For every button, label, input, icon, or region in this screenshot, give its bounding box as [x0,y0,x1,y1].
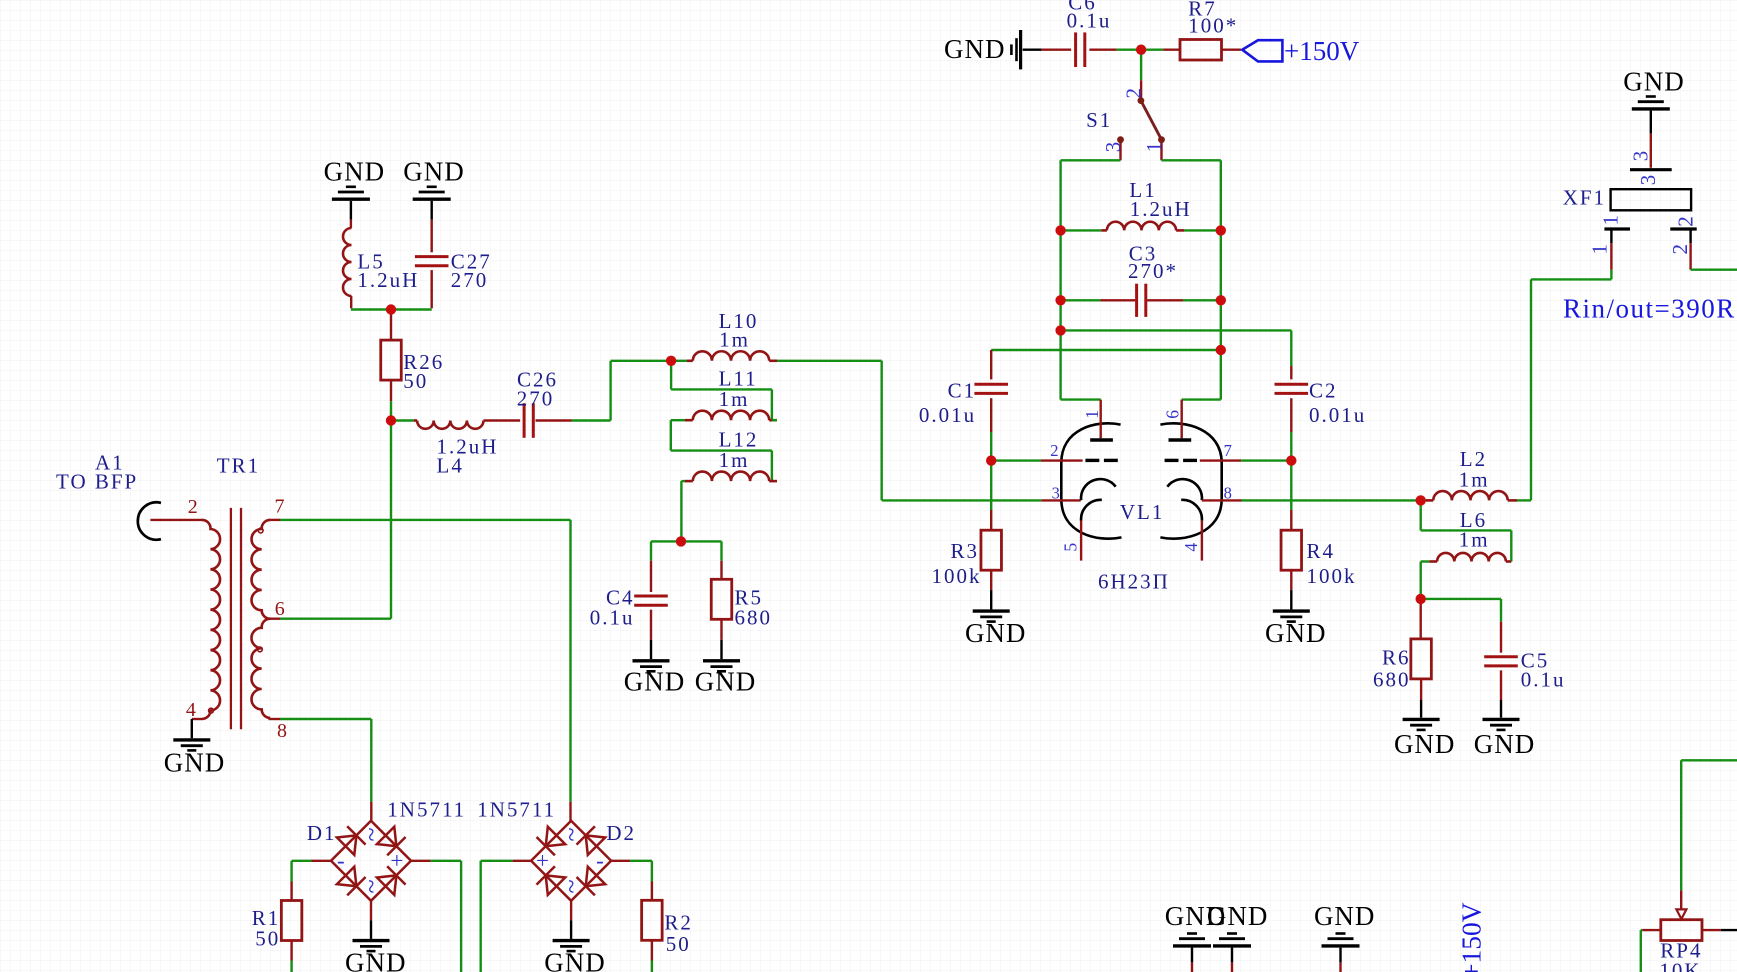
junction C4/R5 node [676,536,686,546]
ground below R5 [720,640,722,659]
TR1 core [230,508,232,729]
svg-text:1: 1 [1082,410,1102,419]
cathode a arc of VL1 [1081,479,1116,500]
TR1 polarity dot lower [258,647,263,652]
svg-text:2: 2 [188,496,198,518]
svg-text:D2: D2 [606,821,636,845]
wire L11 left down to L12 right [670,420,672,450]
pin 4 of VL1 (heater) [1201,521,1203,561]
svg-text:GND: GND [1265,618,1327,648]
svg-text:D1: D1 [307,821,337,845]
wire grid-b node down to R4 [1290,461,1292,510]
switch S1 [1140,80,1142,98]
svg-text:S1: S1 [1086,108,1112,132]
anode plate a of VL1 [1090,438,1113,442]
svg-text:-: - [337,848,345,873]
svg-text:VL1: VL1 [1120,500,1165,524]
svg-text:4: 4 [1181,543,1201,552]
svg-text:1: 1 [1142,142,1166,153]
junction L2 node [1416,495,1426,505]
wire node to C4 [651,540,681,542]
svg-text:1m: 1m [1459,528,1490,552]
resistor R3 [990,510,992,530]
svg-text:3: 3 [1628,151,1652,162]
junction L1 right [1216,225,1226,235]
svg-text:GND: GND [695,667,757,697]
XF1 pin 2 plate [1670,227,1696,230]
tube VL1 envelope [1061,423,1121,538]
svg-text:0.1u: 0.1u [590,605,635,629]
pin 2 of VL1 (grid a) [1041,459,1083,461]
svg-text:L4: L4 [437,454,464,478]
svg-text:270: 270 [517,387,555,411]
junction C1 / grid 2 / R3 [986,455,996,465]
heater a arc of VL1 [1081,500,1102,521]
inductor L11 [671,419,685,421]
junction R6/C5 node [1416,594,1426,604]
pin 7 of VL1 (grid b) [1200,459,1242,461]
cathode b arc of VL1 [1167,479,1202,500]
wire L2 right up to XF1 pin 1 [1530,279,1532,500]
svg-text:2: 2 [1668,244,1692,255]
pin 3 of VL1 (cathode a) [1041,499,1080,501]
junction R26 / L4 / TR1 pin6 wire [386,415,396,425]
svg-text:270*: 270* [1128,259,1178,283]
svg-text:100*: 100* [1188,14,1238,38]
resistor R26 [390,310,392,341]
svg-text:2: 2 [1050,441,1058,460]
wire L5 to C27 bottom rail [351,308,432,310]
resistor R6 [1419,599,1421,639]
anode plate b of VL1 [1169,438,1192,442]
svg-text:2: 2 [1674,216,1698,227]
wire grid-a node down to R3 [990,461,992,510]
svg-text:GND: GND [324,156,386,186]
junction tank-left / C2 wire [1055,325,1065,335]
wire L12 left down to C4/R5 node [680,481,682,541]
wire TR1 pin 7 to D2 bridge [280,519,571,521]
svg-text:-: - [596,848,604,873]
svg-text:GND: GND [544,947,606,972]
capacitor C4 [650,561,652,592]
svg-text:GND: GND [965,618,1027,648]
svg-text:1: 1 [1588,244,1612,255]
svg-text:680: 680 [1373,668,1411,692]
svg-text:GND: GND [1207,901,1269,931]
svg-text:GND: GND [624,667,686,697]
svg-text:8: 8 [277,720,287,742]
inductor L6 [1429,560,1437,563]
svg-text:R3: R3 [950,539,979,563]
wire tank to C2 (top bypass) [1061,329,1292,331]
svg-text:3: 3 [1052,484,1060,503]
capacitor C2 [1290,366,1292,379]
wire tank right to tube pin 6 [1182,398,1221,400]
svg-text:1m: 1m [1459,467,1490,491]
pin 3 of XF1 [1650,134,1652,168]
junction C3 right [1216,295,1226,305]
XF1 pin 1 plate [1604,227,1630,230]
grid a dashes of VL1 [1085,459,1099,462]
crystal filter XF1 body [1611,189,1692,210]
wire S1 pin3 rail to tank left [1061,159,1121,161]
wire XF1 pin 2 to right edge [1691,269,1737,271]
capacitor C5 [1500,622,1502,653]
ground below C5 [1500,700,1502,718]
wire right edge to RP4 wiper [1681,759,1737,761]
svg-text:R4: R4 [1307,539,1336,563]
capacitor C27 [431,220,433,253]
power flag +150V [1242,40,1282,61]
pin 8 of VL1 (cathode b) [1202,499,1242,501]
svg-text:+150V: +150V [1284,36,1360,66]
svg-text:R6: R6 [1382,646,1411,670]
svg-text:10K: 10K [1659,959,1701,972]
resistor R5 [720,561,722,580]
svg-text:+: + [390,848,403,873]
junction above R26 [386,304,396,314]
wire L10 node down to L11 right [670,361,672,390]
junction tank-right / C1 wire [1216,345,1226,355]
svg-text:0.01u: 0.01u [919,403,976,427]
wire C26 to L10 node [572,419,611,421]
diode bridge D1 [370,802,372,821]
wire TR1 pin 8 to D1 bridge [280,718,371,720]
ground at TR1 pin 4 [191,719,193,738]
svg-text:7: 7 [275,495,285,517]
svg-text:GND: GND [1394,729,1456,759]
svg-text:270: 270 [451,268,489,292]
svg-text:1m: 1m [719,328,750,352]
svg-text:50: 50 [403,369,428,393]
svg-text:100k: 100k [932,564,982,588]
svg-text:8: 8 [1224,484,1232,503]
wire L6 left down to R6/C5 node [1419,562,1421,599]
resistor R2 [651,882,653,901]
transformer TR1 primary winding [150,519,203,521]
ground below D2 [570,901,572,920]
svg-text:7: 7 [1224,441,1232,460]
pin 1 of VL1 (anode a) [1099,400,1101,439]
antenna connector arc [138,502,161,539]
potentiometer RP4 [1680,890,1682,909]
wire C6 to R7 [1117,49,1164,51]
svg-text:4: 4 [186,699,196,721]
junction C2 / grid 7 / R4 [1286,455,1296,465]
inductor L1 [1061,229,1102,231]
wire L2 node to L6 right [1419,500,1421,530]
wire L10 right down to cathode rail [777,360,882,362]
svg-text:0.01u: 0.01u [1309,403,1366,427]
resistor R1 [290,882,292,901]
svg-text:~: ~ [557,826,586,841]
svg-text:100k: 100k [1307,564,1357,588]
svg-text:GND: GND [164,748,226,778]
inductor L4 [391,419,414,421]
ground below R4 [1290,590,1292,609]
wire junction down to S1 pin 2 [1140,50,1142,81]
svg-text:50: 50 [666,932,691,956]
svg-text:1.2uH: 1.2uH [357,268,419,292]
transformer TR1 secondary winding upper [252,520,271,619]
S1 pin 3 contact dot [1117,136,1124,143]
TR1 polarity dot upper [258,528,263,533]
ground below R6 [1420,700,1422,718]
diode bridge D2 [569,802,571,821]
junction L1 left [1055,225,1065,235]
inductor L5 [350,220,352,228]
svg-text:1N5711: 1N5711 [477,798,556,822]
resistor R4 [1290,510,1292,530]
inductor L2 [1421,499,1426,501]
svg-text:TO BFP: TO BFP [56,470,138,494]
svg-text:680: 680 [735,605,773,629]
svg-text:+: + [536,848,549,873]
wire S1 pin1 rail to tank right [1162,159,1221,161]
svg-text:50: 50 [255,927,280,951]
pin 6 of VL1 (anode b) [1180,400,1182,439]
svg-text:3: 3 [1636,175,1660,186]
svg-text:6H23П: 6H23П [1098,570,1170,594]
svg-text:2: 2 [1121,88,1145,99]
TR1 polarity dot primary [209,708,214,713]
svg-text:GND: GND [345,947,407,972]
svg-text:~: ~ [357,878,386,893]
wire RP4 right lead to edge [1721,929,1737,931]
wire RP4 left lead down [1641,929,1643,931]
wire C1 to tank right [991,349,1221,351]
S1 pin 1 contact dot [1158,136,1165,143]
svg-text:TR1: TR1 [217,454,260,478]
inductor L12 [681,480,685,482]
svg-text:GND: GND [1623,67,1685,97]
inductor L10 [671,360,687,362]
svg-text:1m: 1m [719,387,750,411]
svg-text:GND: GND [403,156,465,186]
svg-text:GND: GND [944,34,1006,64]
ground below C4 [650,640,652,659]
XF1 pin 3 plate [1630,168,1672,171]
junction at +150V node [1136,45,1146,55]
wire tank left to tube pin 1 [1061,398,1101,400]
wire L10 leg to cathode pin 3 [882,499,1042,501]
wire C2 node to grid pin 7 [1241,459,1291,461]
svg-text:~: ~ [357,826,386,841]
svg-text:0.1u: 0.1u [1067,9,1112,33]
capacitor C26 [523,403,526,438]
svg-text:+150V: +150V [1456,902,1487,972]
svg-text:~: ~ [557,878,586,893]
wire cathode pin 8 to L2 node [1242,499,1421,501]
resistor R7 [1163,49,1180,51]
svg-text:1: 1 [1598,215,1622,226]
svg-text:R2: R2 [664,910,693,934]
svg-text:3: 3 [1101,142,1125,153]
svg-text:XF1: XF1 [1563,185,1606,209]
capacitor C3 [1061,299,1101,301]
grid b dashes of VL1 [1165,459,1179,462]
transformer TR1 secondary winding lower [252,619,271,718]
wire TR1 pin 6 to R26 node [280,618,391,620]
ground below D1 [370,901,372,920]
svg-text:1.2uH: 1.2uH [1130,197,1192,221]
svg-text:1N5711: 1N5711 [387,798,466,822]
junction C3 left [1055,295,1065,305]
wire D1 minus to R1 [312,860,332,862]
wire D1 plus output [411,860,431,862]
svg-text:C2: C2 [1309,378,1338,402]
capacitor C1 [990,350,992,379]
wire D2 minus to R2 [611,860,630,862]
pin 5 of VL1 (heater) [1080,520,1082,560]
svg-text:6: 6 [1163,410,1183,419]
wire D2 plus output [513,860,532,862]
heater b arc of VL1 [1181,500,1202,521]
pin 2 of XF1 [1689,231,1691,244]
wire node to R5 [681,540,722,542]
svg-text:5: 5 [1060,543,1080,552]
wire C1 node to grid pin 2 [991,459,1041,461]
pin 1 of XF1 [1610,231,1612,244]
junction L10 node [666,356,676,366]
ground below R3 [990,590,992,609]
svg-text:6: 6 [275,598,285,620]
svg-text:GND: GND [1474,729,1536,759]
capacitor C6 [1041,49,1071,51]
svg-text:GND: GND [1314,901,1376,931]
svg-text:0.1u: 0.1u [1521,668,1566,692]
S1 pin 2 contact dot [1138,97,1145,104]
svg-text:C1: C1 [948,378,977,402]
svg-text:Rin/out=390R: Rin/out=390R [1563,294,1736,324]
svg-text:1m: 1m [719,448,750,472]
wire node to C5 [1421,598,1501,600]
